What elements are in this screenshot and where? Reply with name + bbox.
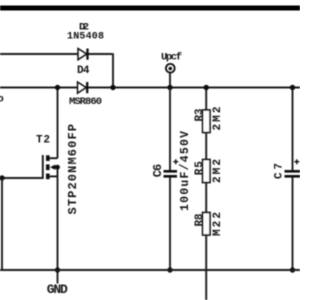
wire C7 top [292,88,294,171]
svg-text:R5: R5 [194,161,206,175]
supply terminal Upcf [161,52,182,88]
wire T2 gate [2,177,43,179]
capacitor C7 [273,159,300,179]
resistor R8 [194,212,224,236]
wire R3-R5 [205,133,207,160]
svg-text:R8: R8 [194,213,206,226]
svg-text:Upcf: Upcf [161,52,182,64]
svg-text:100uF/450V: 100uF/450V [179,131,192,211]
node junction Rchain/rail [204,85,209,90]
node junction C7/top rail [290,85,295,90]
wire D2 branch left [0,53,78,55]
svg-text:MSR860: MSR860 [69,96,102,108]
wire R5-R8 [205,183,207,213]
svg-text:D4: D4 [77,65,90,77]
diode D2 [67,22,104,60]
node junction gate wire [0,175,5,180]
wire R8 bottom crossing rail [205,235,207,300]
svg-text:2M2: 2M2 [212,107,224,131]
wire D2 branch right [88,53,113,87]
node junction Upcf/C6 [167,85,172,90]
sheet border top [0,6,300,11]
ground GND [47,282,68,297]
svg-text:M22: M22 [212,212,224,236]
node junction source/rail [55,267,60,272]
svg-text:o: o [0,94,4,106]
svg-text:STP20NM60FP: STP20NM60FP [66,124,80,215]
svg-text:1N5408: 1N5408 [67,32,104,43]
wire top rail right of D4 [88,87,300,89]
svg-text:C6: C6 [151,164,165,178]
svg-text:2M2: 2M2 [212,159,224,183]
node junction D2/D4 [110,85,115,90]
node junction C6/bottom rail [167,267,172,272]
svg-text:T2: T2 [36,135,50,147]
svg-text:GND: GND [47,282,68,297]
wire C7 bottom [292,178,294,271]
resistor R3 [194,107,224,133]
wire bottom rail [0,269,300,271]
transistor T2 value STP20NM60FP [66,124,80,215]
wire resistor chain top [205,88,207,111]
capacitor C6 [151,131,192,211]
transistor T2 label [36,135,50,147]
diode D4 [69,65,102,108]
node junction C7/bottom rail [290,267,295,272]
cropped label o [0,94,4,106]
wire C6 bottom [169,178,171,271]
transistor T2 (STP20NM60FP N-MOSFET) [43,155,60,179]
resistor R5 [194,159,224,183]
wire C6 top [169,88,171,171]
wire gate branch down [1,178,3,270]
node junction drain/rail [55,85,60,90]
wire T2 drain to top rail [57,88,59,159]
wire top rail left of D4 [0,87,78,89]
svg-text:R3: R3 [194,108,206,121]
wire T2 source to bottom rail [57,176,59,283]
